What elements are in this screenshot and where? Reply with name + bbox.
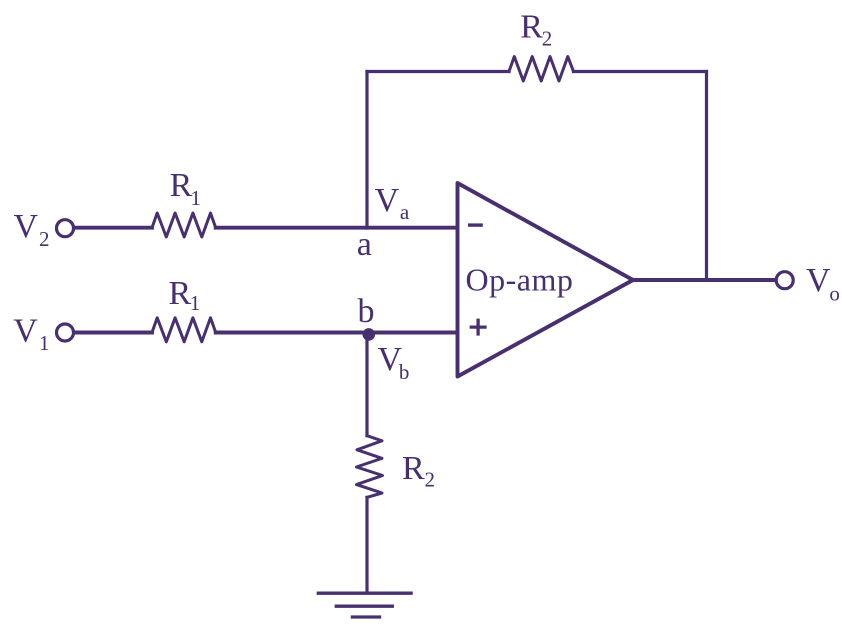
wire node b down to R2 [365,333,368,436]
wire R2 to ground [365,497,368,593]
wire V2 to R1 [75,226,153,230]
svg-text:R: R [170,167,193,204]
wire feedback right vertical [705,72,708,281]
svg-text:b: b [358,293,375,330]
resistor R1 (bottom, V1 branch) [152,318,216,342]
terminal Vo [776,272,793,289]
svg-text:2: 2 [542,27,553,51]
svg-text:V: V [14,208,39,245]
wire top left to R2 [367,70,509,73]
op-amp U1 triangle [458,183,634,377]
svg-text:b: b [399,360,410,384]
svg-text:2: 2 [39,227,50,251]
svg-text:Op-amp: Op-amp [466,262,574,298]
svg-text:o: o [829,281,840,305]
resistor R2 (vertical, to ground) [357,436,383,498]
svg-text:1: 1 [39,331,50,355]
op-amp minus sign [468,223,483,226]
svg-text:a: a [400,200,410,224]
resistor R2 (feedback) [509,57,574,82]
svg-text:R: R [520,9,543,46]
resistor R1 (top, V2 branch) [152,213,216,237]
svg-text:a: a [357,226,372,263]
ground [318,592,411,595]
node b junction dot [363,328,376,341]
svg-text:1: 1 [190,291,201,315]
wire R1 to op-amp non-inverting input [216,331,456,335]
svg-text:V: V [375,182,400,219]
wire node a to feedback top [365,72,368,229]
svg-text:1: 1 [191,186,202,210]
wire R2 to top right corner [574,70,707,73]
svg-text:R: R [402,450,425,487]
svg-text:2: 2 [425,467,436,491]
terminal V1 [57,324,74,341]
terminal V2 [57,220,74,237]
wire V1 to R1 [75,331,153,335]
svg-text:V: V [13,313,38,350]
svg-text:R: R [169,275,192,312]
wire R1 to op-amp inverting input [216,226,456,230]
op-amp plus sign [470,325,487,328]
wire op-amp output [633,278,776,282]
svg-text:V: V [806,262,831,299]
